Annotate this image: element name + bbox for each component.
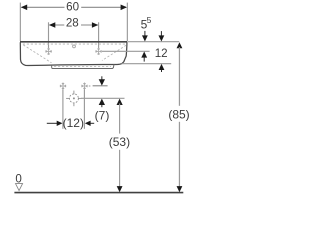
dimension (12): extension line left xyxy=(62,89,64,129)
svg-text:(85): (85) xyxy=(168,108,189,122)
drain level reference line xyxy=(81,97,125,99)
dimension 12: lower arrow (up) xyxy=(161,69,163,72)
dimension (85): vertical line upper part xyxy=(178,47,180,106)
dimension 5.5: upper arrow (down) xyxy=(144,31,146,36)
svg-text:(12): (12) xyxy=(63,116,84,130)
tap hole cross right xyxy=(95,48,102,55)
dimension (12): right arrow (pointing left) xyxy=(90,122,94,124)
dimension 60: dimension line xyxy=(22,6,65,8)
tap ledge extension line (5.5 reference) xyxy=(102,50,150,52)
dimension 28: dimension line xyxy=(50,24,65,26)
svg-text:(53): (53) xyxy=(109,135,130,149)
tap hole cross left xyxy=(45,48,52,55)
fixing hole cross left xyxy=(60,82,67,89)
overflow hole circle xyxy=(73,45,76,48)
svg-text:60: 60 xyxy=(66,1,79,14)
dimension 60: right arrowhead xyxy=(121,5,127,11)
dimension (85): top arrowhead (up) xyxy=(177,42,183,48)
dimension 28: right arrowhead xyxy=(92,22,98,28)
centre reference dash-dot line from right fixing cross xyxy=(89,85,91,87)
dimension (53): vertical line lower part xyxy=(119,150,121,187)
dimension (53): top arrowhead (up) xyxy=(117,99,123,105)
svg-text:(7): (7) xyxy=(95,109,110,123)
dimension (7): lower arrow (up) xyxy=(101,104,103,107)
washbasin outline (left edge, bottom, right corner, right edge) xyxy=(20,42,127,65)
dimension 28: extension line left xyxy=(48,22,50,48)
dimension (12): left arrow (pointing right) xyxy=(47,122,57,124)
svg-text:5: 5 xyxy=(147,15,152,25)
dimension 12: upper arrow (down) xyxy=(160,31,162,36)
dimension (85): bottom arrowhead (down) xyxy=(177,186,183,192)
fixing hole cross right xyxy=(81,82,88,89)
drain symbol: center dot xyxy=(73,97,75,99)
dimension 60: left arrowhead xyxy=(21,5,27,11)
washbasin bowl hidden contour right (dashed diagonal) xyxy=(102,45,126,60)
dimension (12): extension line right xyxy=(83,89,85,129)
dimension (53): vertical line upper part xyxy=(119,103,121,133)
svg-text:12: 12 xyxy=(155,47,168,60)
washbasin bottom lip xyxy=(52,64,115,68)
rim level extension line to the right xyxy=(128,41,179,43)
floor line xyxy=(14,192,183,194)
dimension (53): bottom arrowhead (down) xyxy=(117,186,123,192)
drain symbol: circle xyxy=(69,94,78,103)
washbasin bowl hidden contour left (dashed diagonal) xyxy=(23,45,51,63)
basin bottom extension line to the right xyxy=(122,63,172,65)
dimension (7): upper arrow (down) xyxy=(101,76,103,80)
washbasin rim top line xyxy=(20,41,127,43)
washbasin inner rim hidden line (dashed) xyxy=(23,43,126,45)
drain symbol: crosshair ticks xyxy=(66,91,82,107)
dimension (85): vertical line lower part xyxy=(178,122,180,187)
dimension 28: left arrowhead xyxy=(49,22,55,28)
svg-text:28: 28 xyxy=(66,16,79,29)
washbasin bottom lip hidden line (dashed) xyxy=(54,66,111,68)
dimension 5.5: lower arrow (up) xyxy=(143,57,145,62)
dimension 60: extension line right xyxy=(126,3,128,41)
dimension 60: extension line left xyxy=(19,3,21,41)
datum triangle xyxy=(16,184,23,191)
dimension 28: extension line right xyxy=(98,22,100,48)
